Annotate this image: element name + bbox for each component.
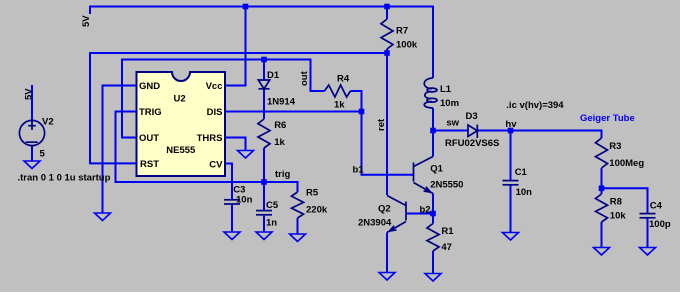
svg-text:.ic v(hv)=394: .ic v(hv)=394 [506,100,564,111]
svg-text:C5: C5 [266,200,279,211]
svg-text:D1: D1 [267,70,280,81]
svg-text:NE555: NE555 [166,145,196,156]
svg-text:1k: 1k [274,137,285,148]
svg-text:C4: C4 [650,201,663,212]
svg-text:L1: L1 [440,84,452,95]
svg-text:47: 47 [441,242,452,253]
svg-text:DIS: DIS [207,107,223,118]
svg-text:RFU02VS6S: RFU02VS6S [445,138,499,149]
svg-text:5V: 5V [81,15,92,27]
svg-text:D3: D3 [466,111,478,122]
svg-text:b2: b2 [420,205,431,216]
svg-text:trig: trig [275,169,291,180]
svg-text:C1: C1 [515,167,528,178]
svg-text:10n: 10n [236,195,253,206]
svg-text:Q2: Q2 [378,204,391,215]
svg-text:.tran 0 1 0 1u startup: .tran 0 1 0 1u startup [18,173,111,184]
svg-text:GND: GND [139,81,160,92]
svg-text:THRS: THRS [197,133,223,144]
svg-text:100Meg: 100Meg [609,158,644,169]
svg-text:Geiger Tube: Geiger Tube [580,113,635,124]
svg-text:R7: R7 [396,26,408,37]
svg-text:R5: R5 [306,188,319,199]
svg-text:hv: hv [505,119,517,130]
svg-text:1k: 1k [334,100,345,111]
svg-text:R3: R3 [609,141,621,152]
svg-text:5V: 5V [23,88,34,100]
svg-text:sw: sw [446,118,459,129]
svg-text:10n: 10n [516,187,533,198]
svg-text:2N5550: 2N5550 [430,179,463,190]
svg-text:R1: R1 [441,226,454,237]
svg-text:2N3904: 2N3904 [358,217,392,228]
svg-text:ret: ret [376,118,387,131]
svg-text:R6: R6 [274,120,286,131]
svg-text:10k: 10k [610,211,627,222]
svg-text:10m: 10m [440,98,459,109]
svg-text:out: out [299,70,310,86]
svg-text:OUT: OUT [139,133,159,144]
svg-text:R4: R4 [337,74,350,85]
svg-text:R8: R8 [610,197,622,208]
svg-text:220k: 220k [306,205,328,216]
svg-text:1n: 1n [266,218,277,229]
svg-text:RST: RST [140,159,159,170]
svg-text:1N914: 1N914 [267,97,296,108]
svg-text:100p: 100p [649,219,671,230]
svg-text:5: 5 [40,149,46,160]
svg-text:b1: b1 [353,165,365,176]
svg-text:Vcc: Vcc [206,81,223,92]
svg-text:100k: 100k [396,40,418,51]
svg-text:V2: V2 [42,117,54,128]
svg-text:CV: CV [209,160,223,171]
svg-text:Q1: Q1 [430,164,443,175]
svg-text:U2: U2 [174,94,186,105]
svg-text:TRIG: TRIG [139,107,162,118]
